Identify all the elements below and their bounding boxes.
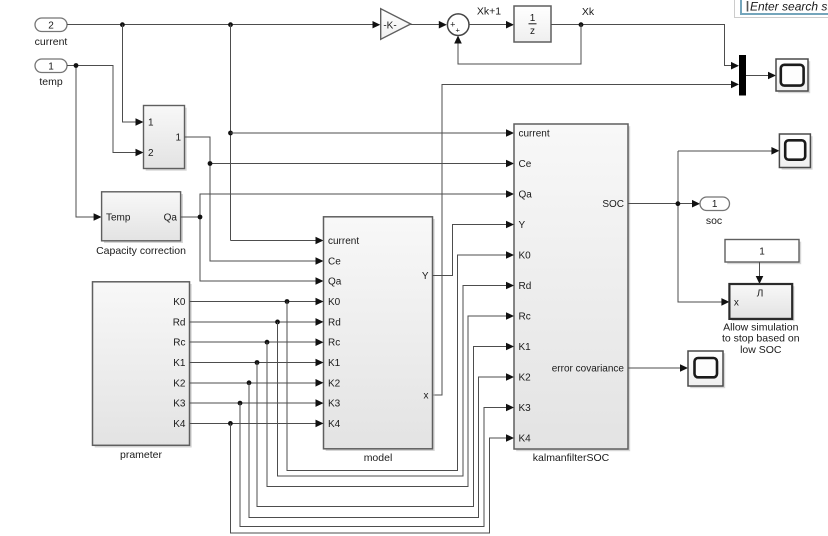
svg-text:Ce: Ce: [328, 257, 341, 268]
node K4-junction: [228, 421, 233, 426]
node K0-junction: [285, 299, 290, 304]
svg-text:1: 1: [175, 133, 181, 144]
svg-text:Capacity correction: Capacity correction: [96, 245, 186, 257]
node SOC-junction: [676, 201, 681, 206]
svg-text:1: 1: [148, 118, 154, 129]
wire mux to scope1: [746, 72, 776, 80]
wire Rc loop to kalman: [267, 312, 514, 487]
svg-text:K3: K3: [328, 399, 341, 410]
svg-text:temp: temp: [39, 76, 63, 88]
node current-junction-1: [120, 22, 125, 27]
svg-text:K4: K4: [328, 419, 341, 430]
svg-text:Л: Л: [757, 289, 764, 300]
svg-text:soc: soc: [706, 215, 722, 227]
wire current down to model: [230, 25, 232, 241]
svg-text:Xk: Xk: [582, 6, 595, 18]
wire error covariance to scope3: [628, 364, 688, 372]
svg-text:+: +: [456, 26, 461, 35]
stop simulation block: [722, 284, 800, 356]
wire K0 loop to kalman: [287, 251, 514, 470]
svg-text:z: z: [530, 26, 535, 37]
svg-text:kalmanfilterSOC: kalmanfilterSOC: [533, 452, 610, 464]
svg-text:K3: K3: [519, 403, 532, 414]
wire SOC net: [628, 147, 779, 306]
node Ce-junction: [208, 161, 213, 166]
svg-text:K1: K1: [173, 358, 186, 369]
svg-text:prameter: prameter: [120, 449, 163, 461]
svg-text:K2: K2: [173, 378, 186, 389]
wire current to subsystem in1: [122, 25, 143, 126]
svg-text:Rc: Rc: [519, 312, 531, 323]
kalmanfilterSOC block: [514, 124, 630, 464]
node current-junction-2: [228, 22, 233, 27]
node Rd-junction: [275, 320, 280, 325]
node K1-junction: [255, 360, 260, 365]
node current-junction-3: [228, 131, 233, 136]
wire K4 loop to kalman: [230, 423, 514, 533]
wire feedback: [454, 25, 581, 64]
node Xk-junction: [579, 22, 584, 27]
wire Rc prameter to model: [190, 338, 324, 346]
unit delay 1/z: [514, 6, 551, 42]
svg-text:Qa: Qa: [164, 213, 178, 224]
wire sum to delay: [469, 21, 514, 29]
svg-text:current: current: [35, 36, 68, 48]
wire K3 prameter to model: [190, 399, 324, 407]
node K2-junction: [247, 380, 252, 385]
svg-text:1: 1: [48, 62, 54, 73]
sum block: [447, 14, 469, 36]
wire temp net: [67, 66, 144, 221]
svg-text:current: current: [328, 236, 359, 247]
svg-text:low SOC: low SOC: [740, 344, 782, 356]
node K3-junction: [238, 401, 243, 406]
svg-text:1: 1: [530, 13, 536, 24]
outport 1 soc: [700, 197, 730, 227]
svg-text:1: 1: [712, 199, 718, 210]
wire current to model input: [231, 237, 324, 245]
svg-text:error covariance: error covariance: [552, 364, 625, 375]
wire K1 prameter to model: [190, 359, 324, 367]
svg-text:2: 2: [148, 148, 154, 159]
wire K0 prameter to model: [190, 298, 324, 306]
svg-text:Temp: Temp: [106, 213, 131, 224]
svg-text:Rc: Rc: [328, 338, 340, 349]
svg-text:Rd: Rd: [519, 281, 532, 292]
svg-text:-K-: -K-: [383, 21, 396, 32]
model block: [324, 217, 435, 464]
wire Rd loop to kalman: [278, 282, 515, 476]
svg-text:Rd: Rd: [328, 317, 341, 328]
capacity correction block: [96, 192, 186, 257]
svg-text:model: model: [364, 452, 393, 464]
wire current main horizontal: [67, 24, 373, 26]
svg-text:K1: K1: [519, 342, 532, 353]
svg-text:SOC: SOC: [602, 199, 624, 210]
svg-text:Enter search st: Enter search st: [750, 0, 828, 14]
svg-text:2: 2: [48, 21, 54, 32]
svg-text:Ce: Ce: [519, 159, 532, 170]
subsystem mux block: [144, 106, 187, 171]
node Rc-junction: [265, 340, 270, 345]
wire K4 prameter to model: [190, 420, 324, 428]
svg-text:to stop based on: to stop based on: [722, 333, 800, 345]
svg-text:Y: Y: [519, 220, 526, 231]
scope3 error covariance: [688, 351, 725, 388]
wire Qa net: [181, 190, 514, 285]
svg-text:x: x: [424, 391, 429, 402]
wire subsystem out to Ce: [185, 137, 515, 265]
svg-text:K0: K0: [328, 297, 341, 308]
node temp-junction: [74, 63, 79, 68]
svg-text:1: 1: [759, 247, 765, 258]
node Qa-junction: [198, 215, 203, 220]
svg-text:Qa: Qa: [328, 277, 342, 288]
wire Rd prameter to model: [190, 318, 324, 326]
svg-text:x: x: [734, 298, 739, 309]
svg-text:K1: K1: [328, 358, 341, 369]
wire model x to mux: [433, 81, 740, 395]
wire delay out: [551, 25, 739, 70]
prameter block: [93, 282, 192, 461]
scope1: [776, 59, 810, 93]
mux bar: [739, 55, 746, 96]
svg-text:K0: K0: [173, 297, 186, 308]
wire gain to sum: [411, 21, 447, 29]
svg-text:K2: K2: [328, 378, 341, 389]
svg-text:K4: K4: [173, 419, 186, 430]
inport 1 temp: [35, 59, 67, 88]
svg-text:Rd: Rd: [173, 317, 186, 328]
wire current to kalman: [231, 129, 515, 137]
wire K2 loop to kalman: [249, 373, 514, 517]
gain -K-: [373, 9, 411, 40]
wire K1 loop to kalman: [257, 343, 514, 507]
svg-text:Y: Y: [422, 271, 429, 282]
scope2 soc: [779, 134, 812, 170]
svg-text:K3: K3: [173, 399, 186, 410]
wire K3 loop to kalman: [240, 403, 514, 526]
svg-text:Qa: Qa: [519, 190, 533, 201]
svg-text:K2: K2: [519, 373, 532, 384]
wire model Y to kalman: [433, 221, 515, 276]
svg-text:Xk+1: Xk+1: [477, 6, 501, 18]
svg-text:Rc: Rc: [173, 338, 185, 349]
inport 2 current: [35, 18, 68, 48]
search box: [735, 0, 828, 18]
wire K2 prameter to model: [190, 379, 324, 387]
constant 1: [725, 240, 801, 265]
svg-text:K0: K0: [519, 251, 532, 262]
svg-text:K4: K4: [519, 434, 532, 445]
svg-text:current: current: [519, 129, 550, 140]
wire constant to stop block: [756, 262, 764, 284]
